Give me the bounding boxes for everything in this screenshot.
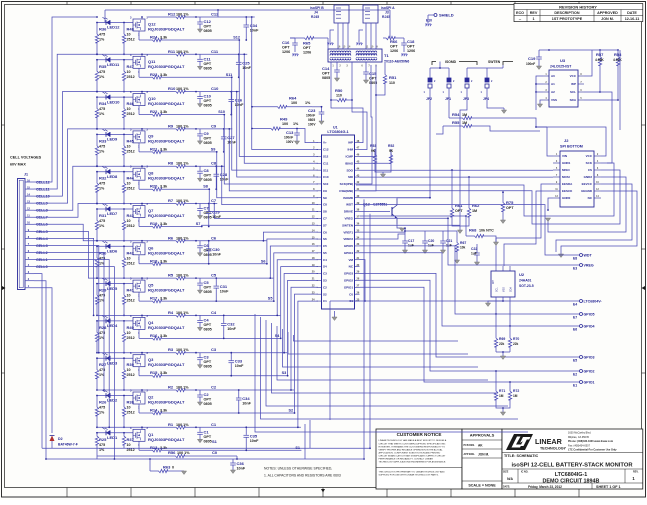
svg-text:R53: R53 (370, 144, 376, 148)
svg-text:GPIO2: GPIO2 (344, 279, 354, 283)
svg-text:LED1: LED1 (107, 435, 118, 440)
svg-text:RQJ0303PGDQALT: RQJ0303PGDQALT (148, 250, 185, 255)
svg-text:OPT: OPT (322, 72, 330, 76)
svg-text:CELL2: CELL2 (36, 251, 48, 255)
capacitor C34 10nF (238, 390, 240, 397)
resistor R36 475 1% (95, 23, 98, 55)
wire SDA net (584, 72, 618, 100)
wire cell 8 top row C8 (97, 165, 165, 167)
svg-text:3.3k: 3.3k (160, 222, 168, 226)
resistor R29 475 1% (95, 284, 98, 316)
svg-text:1%: 1% (99, 224, 105, 228)
svg-text:LTC Confidential-For Customer: LTC Confidential-For Customer Use Only (568, 449, 617, 452)
resistor R6 100 1% (165, 239, 196, 242)
svg-text:10: 10 (127, 144, 131, 148)
svg-text:JP4: JP4 (483, 97, 489, 101)
svg-text:1%: 1% (99, 149, 105, 153)
resistor R41 10 2512 (122, 284, 125, 316)
capacitor C35 10nF (245, 427, 247, 434)
svg-text:C11: C11 (204, 56, 212, 61)
svg-text:S5: S5 (268, 297, 273, 301)
svg-text:R67: R67 (460, 241, 466, 245)
svg-text:E5: E5 (573, 359, 577, 363)
svg-text:RQJ0303PGDQALT: RQJ0303PGDQALT (148, 437, 185, 442)
wire bus extension (305, 458, 364, 460)
svg-text:RQJ0303PGDQALT: RQJ0303PGDQALT (148, 101, 185, 106)
svg-text:60V MAX: 60V MAX (10, 163, 26, 167)
svg-text:OPT: OPT (407, 45, 415, 49)
svg-text:VM: VM (349, 258, 354, 262)
wire Q10 source (138, 106, 140, 115)
wire cell 4 top row C4 (97, 314, 165, 316)
svg-text:C5: C5 (323, 244, 327, 248)
svg-text:C11: C11 (211, 49, 219, 54)
resistor R46 10 2512 (122, 97, 125, 129)
ground (199, 286, 201, 290)
svg-text:R31: R31 (99, 213, 107, 218)
wire S1 row (175, 449, 301, 451)
svg-text:R62: R62 (472, 203, 480, 208)
svg-text:10nF: 10nF (242, 402, 251, 406)
wire CS to chip (360, 170, 621, 224)
resistor R19 3.3k (139, 225, 175, 228)
wire C12 net to chip (252, 17, 318, 149)
svg-text:R68: R68 (469, 228, 477, 233)
svg-text:S7: S7 (196, 222, 201, 226)
svg-text:C6: C6 (323, 230, 327, 234)
svg-text:10k NTC: 10k NTC (479, 229, 494, 233)
resistor R71 1M (495, 371, 497, 387)
svg-text:100 1%: 100 1% (177, 451, 190, 455)
resistor R52 9K (360, 162, 392, 164)
ground (199, 398, 201, 402)
svg-text:LED4: LED4 (107, 323, 118, 328)
resistor R22 3.3k (139, 113, 175, 116)
LED LED12 (106, 20, 110, 25)
svg-text:R66: R66 (390, 39, 398, 44)
flag GPIO5 E7 (360, 246, 576, 314)
svg-text:4.99K: 4.99K (613, 58, 622, 62)
svg-text:C21: C21 (446, 239, 452, 243)
svg-text:DRIVE: DRIVE (344, 210, 353, 214)
svg-text:E2: E2 (573, 373, 577, 377)
svg-text:OPT: OPT (506, 206, 514, 210)
wire S8 net to chip (209, 189, 318, 211)
svg-text:C28: C28 (220, 172, 228, 177)
capacitor C8 OPT 0805 (199, 166, 201, 170)
capacitor C14 OPT 0805 (336, 62, 338, 69)
svg-text:1uF: 1uF (471, 252, 477, 256)
wire ISOMD net to chip (360, 96, 431, 198)
svg-text:LED5: LED5 (107, 286, 118, 291)
svg-text:RJ45: RJ45 (311, 15, 319, 19)
svg-text:100 1%: 100 1% (176, 199, 189, 203)
svg-text:C35: C35 (250, 433, 258, 438)
svg-text:J4: J4 (314, 11, 318, 15)
svg-text:C25: C25 (242, 60, 250, 65)
svg-text:R19: R19 (150, 221, 158, 226)
svg-text:HOWEVER, IT REMAINS THE CUSTOM: HOWEVER, IT REMAINS THE CUSTOMERS RESPON… (379, 445, 446, 448)
wire C9 net to chip (229, 129, 318, 191)
wire S11 net to chip (232, 77, 318, 170)
svg-text:EEGND: EEGND (581, 189, 593, 193)
svg-text:R18: R18 (150, 258, 158, 263)
wire J1 pin3 down (34, 274, 42, 449)
capacitor C21 1uF (442, 231, 444, 240)
svg-text:R61: R61 (455, 203, 463, 208)
svg-text:10: 10 (127, 70, 131, 74)
svg-text:SWTEN: SWTEN (488, 60, 501, 64)
ground (199, 323, 201, 327)
resistor R7 100 1% (165, 202, 196, 205)
svg-text:3.3k: 3.3k (160, 297, 168, 301)
svg-text:1%: 1% (99, 187, 105, 191)
transistor Q13 CZT5551 (360, 210, 391, 212)
svg-text:C7: C7 (211, 198, 217, 203)
resistor R66 OPT 1206 (389, 10, 391, 32)
svg-text:1uF: 1uF (408, 244, 414, 248)
svg-text:10nF: 10nF (242, 66, 251, 70)
wire C3 net to chip (284, 274, 318, 353)
resistor R70 22k (509, 326, 511, 333)
wire Q13 collector (397, 198, 430, 199)
svg-text:R27: R27 (99, 362, 107, 367)
wire C12 row to fan (196, 16, 255, 18)
svg-text:A0: A0 (551, 74, 555, 78)
capacitor C3 OPT 0805 (199, 353, 201, 357)
svg-text:C11: C11 (323, 161, 329, 165)
svg-text:1%: 1% (99, 75, 105, 79)
IC U2 24AA01 SOT-23-5 (491, 271, 515, 297)
svg-text:100nF: 100nF (306, 114, 315, 118)
svg-text:100nF: 100nF (284, 136, 293, 140)
svg-text:SCL: SCL (496, 287, 499, 292)
svg-text:3.3k: 3.3k (160, 371, 168, 375)
svg-text:CELL8: CELL8 (36, 209, 48, 213)
svg-text:LED3: LED3 (107, 360, 118, 365)
svg-text:IHM: IHM (348, 148, 354, 152)
svg-text:C29: C29 (212, 210, 220, 215)
svg-text:S5: S5 (323, 251, 327, 255)
svg-text:PCB DES.: PCB DES. (464, 444, 476, 447)
svg-text:3.3k: 3.3k (160, 185, 168, 189)
border zone ticks bottom (66, 488, 68, 498)
wire S8 row (175, 188, 209, 190)
svg-text:LTC6804G-1: LTC6804G-1 (327, 130, 348, 134)
wire LED row cell 6 (97, 245, 133, 247)
svg-text:C5: C5 (204, 280, 210, 285)
svg-text:VCC: VCC (570, 74, 577, 78)
wire LED row cell 11 (97, 59, 133, 61)
resistor R12 100 1% (165, 15, 196, 18)
wire MOSI to chip SDI (360, 176, 554, 178)
wire C1 net to chip (298, 301, 318, 427)
wire vertical risers (363, 199, 365, 459)
flag LTC6804V- E4 (330, 300, 575, 302)
svg-text:R49: R49 (280, 117, 288, 122)
RJ45 jack J3 isoSPI A (363, 5, 378, 23)
svg-text:LTC6804V-: LTC6804V- (584, 299, 603, 303)
wire SWTEN net to chip (360, 96, 468, 225)
wire LED row cell 5 (97, 283, 133, 285)
svg-text:EESCK: EESCK (562, 189, 573, 193)
jumper JP2 (429, 68, 431, 78)
LED LED2 (106, 393, 110, 398)
resistor R9 100 1% (165, 127, 196, 130)
wire LED row cell 3 (97, 357, 133, 359)
svg-text:3.3k: 3.3k (160, 334, 168, 338)
svg-text:OPT: OPT (204, 99, 212, 103)
svg-text:475: 475 (99, 33, 105, 37)
wire C4 row to fan (196, 314, 280, 316)
svg-text:DATE:: DATE: (503, 486, 510, 489)
svg-text:RQJ0303PGDQALT: RQJ0303PGDQALT (148, 64, 185, 69)
svg-text:0805: 0805 (204, 141, 212, 145)
svg-text:J1: J1 (24, 173, 28, 177)
capacitor C11 OPT 0805 (199, 54, 201, 58)
capacitor C2 OPT 0805 (199, 390, 201, 394)
ground (199, 100, 201, 104)
svg-text:CELL0: CELL0 (36, 265, 48, 269)
resistor R34 475 1% (95, 97, 98, 129)
svg-text:2512: 2512 (127, 149, 135, 153)
svg-text:APPROVALS: APPROVALS (470, 433, 495, 438)
svg-text:R14: R14 (150, 408, 158, 413)
wire Q6 source (138, 255, 140, 264)
svg-text:R35: R35 (99, 64, 107, 69)
resistor R13 3.3k (139, 449, 175, 452)
svg-text:SOT-23-5: SOT-23-5 (519, 284, 534, 288)
svg-text:SWTEN: SWTEN (342, 223, 353, 227)
svg-text:R54: R54 (452, 112, 460, 117)
svg-text:S2: S2 (323, 292, 327, 296)
wire S1 row bottom (42, 447, 310, 449)
wire S7 net to chip (202, 225, 318, 226)
svg-text:CSB(IMB): CSB(IMB) (339, 189, 353, 193)
wire CELL8 from J1 (34, 166, 97, 210)
svg-text:10: 10 (127, 443, 131, 447)
svg-text:LED7: LED7 (107, 211, 118, 216)
svg-text:Friday, March 23, 2012: Friday, March 23, 2012 (528, 485, 562, 489)
svg-text:10: 10 (127, 219, 131, 223)
svg-text:isoSPI 12-CELL BATTERY-STACK M: isoSPI 12-CELL BATTERY-STACK MONITOR (511, 463, 633, 469)
LED LED9 (106, 132, 110, 137)
svg-text:CELL1: CELL1 (36, 258, 48, 262)
capacitor C29 10nF (208, 204, 210, 211)
customer notice box (376, 429, 462, 489)
svg-text:E8: E8 (573, 257, 577, 261)
svg-text:C8: C8 (204, 168, 210, 173)
transistor Q8 RQJ0303PGDQALT (133, 168, 145, 180)
flag GPIO3 E5 (360, 273, 576, 357)
svg-text:C5: C5 (211, 273, 217, 278)
capacitor C28 10nF (215, 166, 217, 173)
svg-text:R8: R8 (168, 161, 174, 166)
wire C0 bottom bus (46, 458, 305, 460)
svg-text:100 1%: 100 1% (176, 13, 189, 17)
svg-text:CELL VOLTAGES: CELL VOLTAGES (10, 156, 42, 160)
wire IPA to chip (331, 100, 363, 143)
svg-text:C9: C9 (204, 131, 210, 136)
wire cell 5 top row C5 (97, 277, 165, 279)
transistor Q3 RQJ0303PGDQALT (133, 355, 145, 367)
ground (502, 352, 504, 356)
svg-text:SHIELD: SHIELD (439, 13, 454, 18)
wire LED row cell 1 (97, 432, 133, 434)
resistor R65 OPT 1206 (290, 36, 328, 39)
resistor R23 3.3k (139, 76, 175, 79)
wire EEPROM nets down to J2 (607, 98, 612, 163)
wire VREF rails (360, 228, 406, 232)
flag GPIO2 E2 (360, 280, 576, 371)
wire C2 net to chip (291, 287, 318, 390)
svg-text:R9: R9 (168, 123, 174, 128)
ground (503, 108, 505, 110)
resistor R33 475 1% (95, 134, 98, 166)
capacitor C23 100nF 0805 100V (312, 106, 322, 108)
svg-text:E7: E7 (573, 316, 577, 320)
svg-text:C2: C2 (211, 385, 217, 390)
wire S12 net to chip (239, 40, 318, 156)
svg-text:JP2: JP2 (426, 97, 432, 101)
svg-text:0805: 0805 (204, 104, 212, 108)
svg-text:RQJ0303PGDQALT: RQJ0303PGDQALT (148, 176, 185, 181)
wire V- riser (329, 301, 331, 420)
svg-text:100 1%: 100 1% (176, 124, 189, 128)
svg-text:J2: J2 (564, 138, 569, 143)
svg-text:APPROVED: APPROVED (597, 11, 618, 15)
svg-text:R1: R1 (168, 422, 174, 427)
svg-text:1M: 1M (462, 121, 467, 125)
svg-text:100 1%: 100 1% (176, 236, 189, 240)
svg-text:SDI: SDI (348, 175, 353, 179)
resistor R1 100 1% (165, 426, 196, 429)
svg-text:S1: S1 (295, 446, 300, 450)
svg-text:9K: 9K (389, 149, 394, 153)
svg-text:3.3k: 3.3k (160, 36, 168, 40)
resistor R69 22k (495, 314, 497, 333)
svg-text:2512: 2512 (127, 411, 135, 415)
svg-text:SDA: SDA (510, 287, 513, 292)
svg-text:GPIO3: GPIO3 (344, 272, 354, 276)
svg-text:100 1%: 100 1% (176, 386, 189, 390)
svg-text:C34: C34 (250, 23, 258, 28)
svg-text:1uF: 1uF (428, 244, 434, 248)
svg-text:CELL12: CELL12 (36, 180, 50, 184)
svg-text:1%: 1% (99, 38, 105, 42)
svg-text:R25: R25 (99, 437, 107, 442)
svg-text:R70: R70 (513, 337, 519, 341)
svg-text:1630 McCarthy Blvd.: 1630 McCarthy Blvd. (568, 432, 592, 435)
svg-text:475: 475 (99, 443, 105, 447)
svg-text:REV.: REV. (633, 470, 639, 473)
svg-text:VCC: VCC (586, 154, 593, 158)
svg-text:E1: E1 (573, 384, 577, 388)
svg-text:TITLE: SCHEMATIC: TITLE: SCHEMATIC (504, 454, 538, 458)
svg-text:475: 475 (99, 182, 105, 186)
svg-text:3.3k: 3.3k (160, 147, 168, 151)
svg-text:S2: S2 (289, 409, 294, 413)
svg-text:VREG: VREG (584, 263, 594, 267)
capacitor C7 OPT 0805 (199, 204, 201, 208)
shield flag E10 (428, 14, 434, 16)
resistor R45 10 2512 (122, 134, 125, 166)
svg-text:LED6: LED6 (107, 249, 118, 254)
transistor Q1 RQJ0303PGDQALT (133, 429, 145, 441)
wire V+ to chip pin 1 (299, 129, 318, 143)
svg-text:LTC6804IG-1: LTC6804IG-1 (555, 472, 588, 478)
svg-text:S9: S9 (211, 147, 216, 151)
svg-text:10: 10 (127, 256, 131, 260)
svg-text:R7: R7 (168, 198, 174, 203)
Linear Technology logo (506, 434, 567, 450)
svg-text:OPT: OPT (204, 136, 212, 140)
svg-text:2512: 2512 (127, 224, 135, 228)
svg-text:C3: C3 (323, 272, 327, 276)
svg-text:GPIO1: GPIO1 (584, 380, 595, 384)
svg-text:GND2: GND2 (584, 175, 593, 179)
svg-text:R55: R55 (452, 120, 460, 125)
svg-text:R69: R69 (499, 337, 505, 341)
svg-text:R12: R12 (168, 12, 176, 17)
svg-text:RQJ0303PGDQALT: RQJ0303PGDQALT (148, 138, 185, 143)
svg-text:C8: C8 (211, 161, 217, 166)
resistor R50 110 (330, 62, 332, 100)
svg-text:WDT: WDT (346, 203, 353, 207)
wire S10 net to chip (224, 115, 318, 184)
border zone ticks sides (2, 124, 5, 126)
svg-text:R3: R3 (168, 347, 174, 352)
svg-text:C9: C9 (211, 123, 217, 128)
svg-text:24AA01: 24AA01 (519, 279, 532, 283)
svg-text:C7: C7 (323, 216, 327, 220)
ground (334, 311, 336, 317)
svg-text:1%: 1% (99, 112, 105, 116)
wire cell 7 top row C7 (97, 203, 165, 205)
svg-text:100 1%: 100 1% (176, 274, 189, 278)
svg-text:CELL9: CELL9 (36, 202, 48, 206)
chassis ground (427, 15, 429, 23)
svg-text:T1: T1 (384, 53, 389, 58)
wire C3 row to fan (196, 352, 287, 354)
transistor Q10 RQJ0303PGDQALT (133, 94, 145, 106)
wire C11 row to fan (196, 53, 247, 55)
capacitor C22 1uF (476, 248, 478, 252)
svg-text:R28: R28 (99, 325, 107, 330)
wire Q7 source (138, 218, 140, 227)
wire MISO to chip SDO (360, 169, 554, 171)
wire S6 net to chip (267, 239, 318, 264)
wire C7 row to fan (196, 203, 217, 205)
capacitor C20 1uF (424, 231, 426, 240)
chassis ground (330, 30, 334, 42)
svg-text:GPIO5: GPIO5 (584, 312, 595, 316)
svg-text:C4: C4 (204, 317, 210, 322)
svg-text:JP3: JP3 (463, 97, 469, 101)
svg-text:C2: C2 (204, 392, 210, 397)
wire EESCK to U2 (504, 191, 553, 266)
capacitor C10 OPT 0805 (199, 92, 201, 96)
wire S5 net to chip (274, 253, 318, 301)
svg-text:1206: 1206 (282, 50, 290, 54)
svg-text:LED9: LED9 (107, 137, 118, 142)
svg-text:U1: U1 (333, 126, 338, 130)
svg-text:1206: 1206 (390, 49, 398, 53)
svg-text:C0: C0 (349, 292, 353, 296)
svg-text:CIRCUIT BOARD LAYOUT MAY SIGNI: CIRCUIT BOARD LAYOUT MAY SIGNIFICANTLY A… (379, 454, 447, 457)
svg-text:9K: 9K (371, 149, 376, 153)
ground (334, 78, 339, 82)
